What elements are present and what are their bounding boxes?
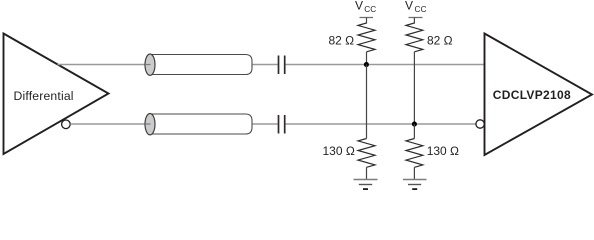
wire: driver inverting output to coax J2: [70, 123, 146, 125]
resistor R2 130 ohm (pull-down, top net): [358, 139, 375, 168]
driver U1 (Differential source): [4, 34, 109, 155]
svg-text:CC: CC: [364, 5, 376, 14]
resistor R3 82 ohm (pull-up, bottom net): [406, 23, 423, 52]
junction dot: node A (top net, R1/R2 tap): [364, 62, 369, 67]
svg-text:130 Ω: 130 Ω: [323, 144, 355, 158]
svg-text:CC: CC: [415, 5, 427, 14]
svg-text:Differential: Differential: [14, 89, 74, 103]
svg-text:130 Ω: 130 Ω: [427, 144, 459, 158]
wire: R4 bottom to ground: [413, 167, 415, 179]
resistor R4 130 ohm (pull-down, bottom net): [406, 139, 423, 168]
wire: driver noninverting output to coax J1: [58, 64, 147, 66]
wire: R1 bottom to top net junction: [366, 52, 368, 65]
wire: J1 to C1: [253, 64, 278, 66]
wire: node A down to R2 (crosses bottom net, no connection): [366, 65, 368, 139]
ground symbol (left): [354, 180, 378, 190]
wire: J2 to C2: [253, 123, 278, 125]
coax cable J1 (top): [145, 54, 252, 75]
junction dot: node B (bottom net, R3/R4 tap): [412, 122, 417, 127]
svg-text:V: V: [405, 0, 413, 13]
wire: C2 to receiver inverting input (bottom net): [286, 123, 476, 125]
wire: R3 bottom to bottom net junction (crosses top net, no connection): [413, 52, 415, 124]
coax cable J2 (bottom): [145, 114, 252, 135]
svg-text:V: V: [355, 0, 363, 13]
wire: R2 bottom to ground: [366, 167, 368, 179]
receiver U2 CDCLVP2108: [485, 34, 593, 156]
svg-text:82 Ω: 82 Ω: [427, 34, 453, 48]
ground symbol (right): [403, 180, 427, 190]
wire: C1 to receiver noninverting input (top net): [286, 64, 485, 66]
output bubble (inverting output of driver): [62, 120, 71, 129]
power symbol VCC (left): [360, 18, 374, 24]
svg-text:82 Ω: 82 Ω: [329, 34, 355, 48]
capacitor C2 (AC coupling, bottom): [279, 115, 285, 134]
power symbol VCC (right): [409, 18, 423, 24]
resistor R1 82 ohm (pull-up, top net): [358, 23, 375, 52]
capacitor C1 (AC coupling, top): [279, 56, 285, 75]
input bubble (inverting input of receiver): [476, 120, 484, 128]
wire: node B down to R4: [413, 124, 415, 139]
svg-text:CDCLVP2108: CDCLVP2108: [493, 88, 571, 102]
